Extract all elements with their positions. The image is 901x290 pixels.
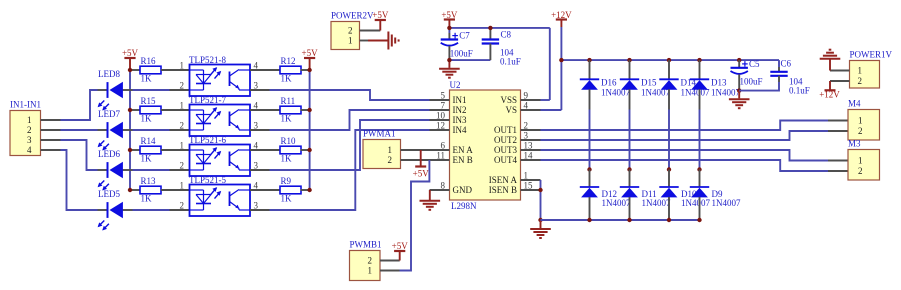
svg-text:IN3: IN3 <box>453 115 467 125</box>
svg-text:POWER2V: POWER2V <box>331 11 374 21</box>
svg-text:2: 2 <box>858 166 863 176</box>
svg-text:ISEN A: ISEN A <box>489 175 518 185</box>
svg-text:4: 4 <box>27 145 32 155</box>
svg-text:2: 2 <box>180 161 185 171</box>
svg-text:OUT1: OUT1 <box>494 125 517 135</box>
svg-text:+5V: +5V <box>392 241 409 251</box>
svg-text:0.1uF: 0.1uF <box>500 57 521 67</box>
svg-text:EN B: EN B <box>453 155 473 165</box>
svg-text:1K: 1K <box>141 74 153 84</box>
svg-text:1N4007: 1N4007 <box>712 198 741 208</box>
svg-text:1: 1 <box>27 115 32 125</box>
svg-text:TLP521-5: TLP521-5 <box>189 175 226 185</box>
svg-text:C6: C6 <box>781 59 792 69</box>
svg-text:R16: R16 <box>141 56 157 66</box>
svg-text:LED7: LED7 <box>98 109 120 119</box>
svg-text:3: 3 <box>27 135 32 145</box>
svg-text:C8: C8 <box>501 30 512 40</box>
svg-text:1K: 1K <box>281 154 293 164</box>
svg-text:3: 3 <box>254 121 259 131</box>
svg-text:1N4007: 1N4007 <box>711 88 740 98</box>
svg-text:IN1-IN1: IN1-IN1 <box>10 100 41 110</box>
svg-text:14: 14 <box>524 151 534 161</box>
svg-text:3: 3 <box>254 81 259 91</box>
svg-text:GND: GND <box>453 185 473 195</box>
svg-text:1: 1 <box>180 61 185 71</box>
svg-text:1N4007: 1N4007 <box>642 198 671 208</box>
svg-text:LED8: LED8 <box>98 69 120 79</box>
svg-text:R13: R13 <box>141 176 157 186</box>
svg-text:100uF: 100uF <box>740 77 763 87</box>
svg-text:2: 2 <box>388 155 393 165</box>
svg-text:+5V: +5V <box>302 48 319 58</box>
svg-text:15: 15 <box>524 181 534 191</box>
svg-text:0.1uF: 0.1uF <box>789 86 810 96</box>
svg-text:1: 1 <box>858 156 863 166</box>
svg-text:D16: D16 <box>601 78 617 88</box>
svg-text:4: 4 <box>254 61 259 71</box>
svg-text:2: 2 <box>27 125 32 135</box>
svg-text:IN4: IN4 <box>453 125 467 135</box>
svg-text:8: 8 <box>441 181 446 191</box>
svg-text:U2: U2 <box>450 80 461 90</box>
svg-text:+5V: +5V <box>372 10 389 20</box>
svg-text:R9: R9 <box>281 176 292 186</box>
svg-text:C5: C5 <box>749 59 760 69</box>
svg-text:TLP521-8: TLP521-8 <box>189 55 226 65</box>
svg-text:OUT4: OUT4 <box>494 155 517 165</box>
svg-text:100uF: 100uF <box>450 49 473 59</box>
svg-text:6: 6 <box>441 141 446 151</box>
svg-text:1: 1 <box>524 171 529 181</box>
svg-text:TLP521-7: TLP521-7 <box>189 95 226 105</box>
svg-text:1: 1 <box>180 101 185 111</box>
svg-text:1: 1 <box>180 141 185 151</box>
svg-text:1K: 1K <box>141 154 153 164</box>
svg-text:M3: M3 <box>848 139 861 149</box>
svg-text:1K: 1K <box>141 114 153 124</box>
svg-text:9: 9 <box>524 91 529 101</box>
svg-text:12: 12 <box>436 121 445 131</box>
svg-text:2: 2 <box>524 121 529 131</box>
svg-text:EN A: EN A <box>453 145 474 155</box>
svg-text:+5V: +5V <box>413 169 430 179</box>
svg-text:1K: 1K <box>281 74 293 84</box>
svg-text:2: 2 <box>368 256 373 266</box>
svg-text:2: 2 <box>858 76 863 86</box>
svg-text:POWER1V: POWER1V <box>850 50 893 60</box>
svg-text:VSS: VSS <box>500 95 517 105</box>
svg-text:7: 7 <box>441 101 446 111</box>
svg-text:2: 2 <box>180 121 185 131</box>
svg-text:IN1: IN1 <box>453 95 467 105</box>
svg-text:13: 13 <box>524 141 534 151</box>
svg-text:5: 5 <box>441 91 446 101</box>
svg-text:M4: M4 <box>848 99 861 109</box>
svg-text:R14: R14 <box>141 136 157 146</box>
svg-text:1K: 1K <box>281 114 293 124</box>
svg-text:+12V: +12V <box>819 90 840 100</box>
svg-text:1: 1 <box>180 181 185 191</box>
svg-text:1N4007: 1N4007 <box>602 198 631 208</box>
svg-text:ISEN B: ISEN B <box>489 185 517 195</box>
svg-text:1K: 1K <box>141 194 153 204</box>
svg-text:LED6: LED6 <box>98 149 120 159</box>
svg-text:PWMB1: PWMB1 <box>350 240 382 250</box>
svg-text:R15: R15 <box>141 96 157 106</box>
svg-text:4: 4 <box>524 101 529 111</box>
svg-text:D15: D15 <box>641 78 657 88</box>
svg-text:L298N: L298N <box>451 201 477 211</box>
svg-text:R12: R12 <box>281 56 296 66</box>
svg-text:C7: C7 <box>459 31 470 41</box>
svg-text:PWMA1: PWMA1 <box>363 129 396 139</box>
svg-text:4: 4 <box>254 181 259 191</box>
svg-text:1N4007: 1N4007 <box>681 198 710 208</box>
svg-text:3: 3 <box>254 201 259 211</box>
svg-text:3: 3 <box>524 131 529 141</box>
svg-text:1: 1 <box>348 36 353 46</box>
svg-text:2: 2 <box>180 201 185 211</box>
svg-text:1: 1 <box>858 116 863 126</box>
svg-text:R11: R11 <box>281 96 296 106</box>
svg-text:OUT2: OUT2 <box>494 135 517 145</box>
svg-text:1: 1 <box>858 66 863 76</box>
svg-text:2: 2 <box>348 26 353 36</box>
svg-text:4: 4 <box>254 101 259 111</box>
svg-text:1: 1 <box>388 145 393 155</box>
svg-text:11: 11 <box>436 151 445 161</box>
svg-text:IN2: IN2 <box>453 105 467 115</box>
svg-text:2: 2 <box>180 81 185 91</box>
svg-text:1K: 1K <box>281 194 293 204</box>
svg-text:2: 2 <box>858 126 863 136</box>
svg-text:TLP521-6: TLP521-6 <box>189 135 226 145</box>
svg-text:+5V: +5V <box>122 48 139 58</box>
svg-text:3: 3 <box>254 161 259 171</box>
svg-text:4: 4 <box>254 141 259 151</box>
svg-text:D13: D13 <box>711 78 727 88</box>
svg-text:10: 10 <box>436 111 446 121</box>
svg-text:R10: R10 <box>281 136 297 146</box>
svg-text:1: 1 <box>368 266 373 276</box>
svg-text:LED5: LED5 <box>98 189 120 199</box>
svg-text:OUT3: OUT3 <box>494 145 517 155</box>
svg-text:VS: VS <box>505 105 517 115</box>
